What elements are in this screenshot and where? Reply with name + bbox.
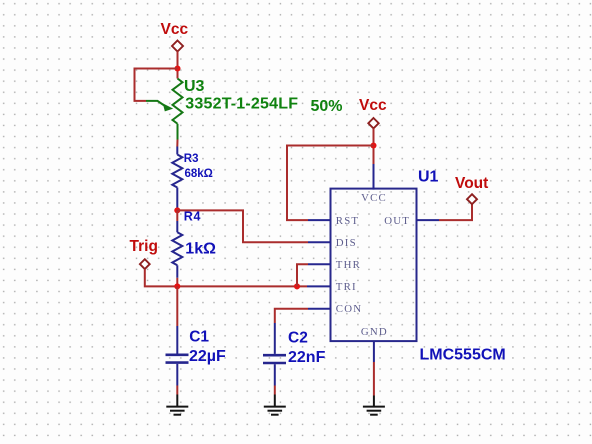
power port Vcc (top): [172, 41, 183, 52]
svg-text:C1: C1: [189, 329, 209, 346]
wire: [177, 210, 308, 242]
port Vout: [467, 194, 477, 204]
wire: [176, 286, 178, 326]
wire: [176, 140, 178, 147]
junction: [294, 283, 300, 289]
wire: [373, 362, 375, 396]
wire: [135, 69, 178, 101]
svg-text:OUT: OUT: [384, 215, 410, 227]
ground: [264, 395, 286, 415]
svg-text:CON: CON: [336, 303, 362, 315]
wire: [274, 386, 276, 395]
pin GND: [373, 341, 375, 362]
svg-text:1kΩ: 1kΩ: [185, 240, 216, 257]
svg-text:22nF: 22nF: [288, 349, 326, 366]
svg-text:50%: 50%: [311, 98, 343, 115]
junction: [174, 207, 180, 213]
wire: [145, 269, 307, 286]
capacitor C2: [263, 323, 286, 386]
wire: [176, 386, 178, 395]
power port Vcc (right): [368, 118, 378, 128]
ground: [166, 395, 188, 415]
IC U1 LMC555CM box: [331, 189, 417, 342]
pin DIS: [308, 241, 331, 243]
junction: [174, 283, 180, 289]
svg-text:Vcc: Vcc: [359, 97, 387, 114]
svg-text:DIS: DIS: [336, 237, 357, 249]
wire: [297, 264, 308, 286]
resistor R4: [172, 221, 182, 278]
svg-text:R3: R3: [184, 153, 199, 165]
wire: [176, 210, 178, 221]
svg-text:THR: THR: [336, 259, 361, 271]
svg-text:Trig: Trig: [130, 238, 158, 255]
svg-text:22µF: 22µF: [189, 348, 226, 365]
svg-text:LMC555CM: LMC555CM: [420, 346, 506, 363]
wire: [275, 309, 308, 323]
pin RST: [308, 219, 331, 221]
svg-text:RST: RST: [336, 215, 359, 227]
capacitor C1: [166, 326, 189, 386]
svg-text:U1: U1: [418, 169, 439, 186]
resistor R3: [172, 147, 182, 211]
pin THR: [308, 263, 331, 265]
pin TRI: [307, 285, 331, 287]
pin CON: [308, 308, 331, 310]
junction: [174, 65, 180, 71]
svg-text:Vout: Vout: [455, 175, 488, 192]
wire: [177, 52, 179, 79]
svg-text:68kΩ: 68kΩ: [185, 168, 213, 180]
svg-text:GND: GND: [361, 326, 388, 338]
svg-text:VCC: VCC: [361, 192, 387, 204]
port Trig: [140, 259, 150, 269]
svg-text:Vcc: Vcc: [161, 21, 189, 38]
junction: [370, 142, 376, 148]
svg-text:C2: C2: [288, 330, 308, 347]
wire: [373, 128, 375, 164]
wire: [439, 204, 472, 220]
wire: [287, 146, 374, 221]
potentiometer U3: [146, 79, 183, 140]
svg-text:R4: R4: [184, 210, 202, 224]
ground: [363, 396, 385, 415]
svg-text:U3: U3: [184, 78, 205, 95]
pin VCC: [373, 164, 375, 190]
svg-text:TRI: TRI: [336, 281, 357, 293]
svg-text:3352T-1-254LF: 3352T-1-254LF: [185, 95, 298, 112]
wire: [176, 278, 178, 287]
pin OUT: [417, 219, 440, 221]
